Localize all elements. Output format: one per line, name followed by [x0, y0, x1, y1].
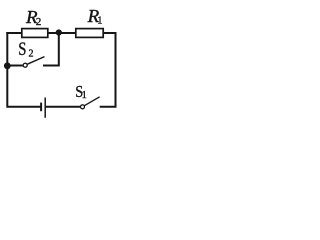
svg-text:2: 2 — [29, 49, 34, 60]
svg-text:1: 1 — [82, 90, 87, 101]
svg-text:1: 1 — [97, 15, 102, 26]
svg-text:2: 2 — [36, 17, 41, 28]
svg-text:S: S — [18, 40, 26, 60]
